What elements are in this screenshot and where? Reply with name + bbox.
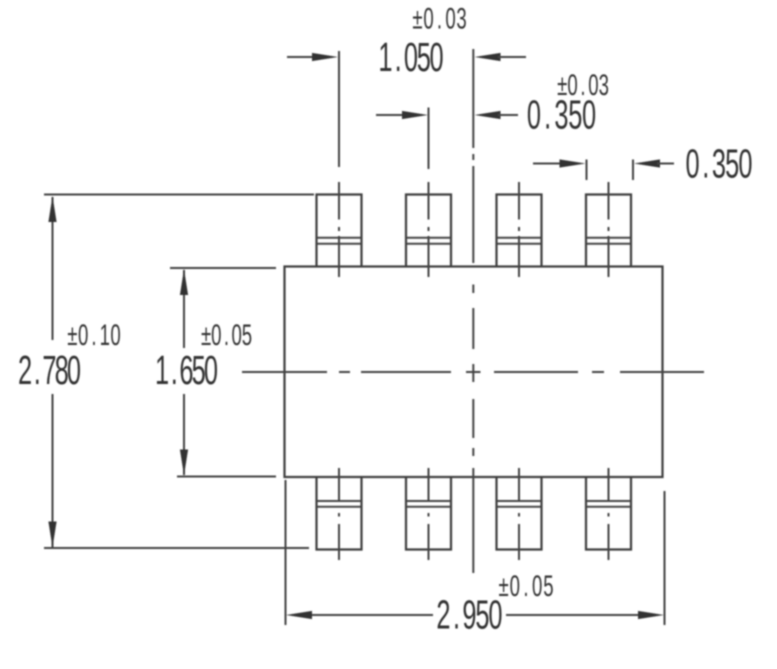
svg-text:.: . [34,348,41,394]
svg-text:5: 5 [417,35,431,81]
pin 8 bottom centerline [338,468,340,560]
svg-text:0: 0 [204,348,218,394]
pin 2 top shoulder lines [406,238,451,244]
svg-text:0: 0 [532,570,542,604]
svg-text:0: 0 [67,348,81,394]
pin 1 top outline [317,195,362,267]
pin 4 top shoulder lines [586,238,631,244]
dimension 1.050: right arrow [475,53,527,61]
dimension 1.050: extension line over pin 1 [338,51,340,167]
svg-text:.: . [91,319,96,353]
svg-text:.: . [453,592,460,638]
svg-text:3: 3 [599,69,609,103]
svg-text:.: . [580,69,585,103]
dimension 0.350 center: extension line over pin 2 [428,108,430,170]
dimension 2.780: bottom extension line [44,547,309,549]
svg-text:5: 5 [475,592,489,638]
dimension 1.650: down arrow [180,450,188,476]
dimension 0.350 pin width: left arrow [533,159,586,167]
pin 3 top centerline [518,182,520,277]
svg-text:0: 0 [567,69,577,103]
svg-text:±: ± [412,2,422,36]
svg-text:0: 0 [738,141,752,187]
svg-text:.: . [395,35,402,81]
dimension 0.350 pin width: extension ticks [587,160,634,181]
pin 5 bottom outline [586,477,631,550]
dimension 1.650: value label [155,348,218,394]
svg-text:0: 0 [404,35,418,81]
svg-text:1: 1 [378,35,392,81]
horizontal package centerline [242,371,704,373]
dimension 0.350 center: left arrow [376,111,428,119]
pin 5 bottom centerline [608,468,610,560]
dimension 2.950: left arrow [286,611,312,619]
svg-text:0: 0 [488,592,502,638]
dimension 1.650: tolerance label [201,319,252,353]
svg-text:0: 0 [232,319,242,353]
pin 8 bottom outline [317,477,362,550]
svg-text:.: . [437,2,442,36]
dimension 2.950: right extension line [664,491,666,625]
dimension 1.050: tolerance label [412,2,466,36]
dimension 1.050: value label [378,35,443,81]
svg-text:.: . [224,319,229,353]
svg-text:3: 3 [456,2,466,36]
svg-text:0: 0 [588,69,598,103]
dimension 2.780: value label [18,348,81,394]
svg-text:2: 2 [18,348,32,394]
pin 2 top outline [406,195,451,267]
svg-text:5: 5 [543,570,553,604]
svg-text:5: 5 [242,319,252,353]
dimension 2.780: up arrow [48,196,56,222]
dimension 2.780: top extension line [44,194,314,196]
svg-text:±: ± [557,69,567,103]
svg-text:0: 0 [510,570,520,604]
svg-text:0: 0 [430,35,444,81]
vertical package centerline [472,49,474,573]
package body [285,267,663,478]
svg-text:1: 1 [155,348,169,394]
pin 7 bottom centerline [428,468,430,560]
svg-text:.: . [171,348,178,394]
dimension 1.650: dimension line [183,270,185,475]
svg-text:3: 3 [712,141,726,187]
dimension 2.950: dimension line [310,614,640,616]
pin 7 bottom outline [406,477,451,550]
dimension 1.050: left arrow [287,53,338,61]
dimension 0.350 pin width: value label [686,141,753,187]
dimension 2.950: value label [436,592,502,638]
svg-text:.: . [544,92,551,138]
pin 6 bottom centerline [518,468,520,560]
svg-text:0: 0 [423,2,433,36]
pin 4 top outline [586,195,631,267]
svg-text:5: 5 [725,141,739,187]
dimension 1.650: up arrow [180,269,188,295]
svg-text:.: . [523,570,528,604]
pin 7 bottom shoulder lines [406,501,451,507]
pin 1 top centerline [338,182,340,277]
pin 1 top shoulder lines [317,238,362,244]
pin 3 top shoulder lines [497,238,542,244]
pin 8 bottom shoulder lines [317,501,362,507]
dimension 2.780: dimension line [52,197,54,547]
dimension 2.950: tolerance label [499,570,554,604]
pin 6 bottom outline [497,477,542,550]
svg-text:0: 0 [527,92,541,138]
svg-text:0: 0 [445,2,455,36]
pin 6 bottom shoulder lines [497,501,542,507]
svg-text:1: 1 [100,319,110,353]
dimension 2.950: right arrow [638,611,664,619]
pin 5 bottom shoulder lines [586,501,631,507]
pin 3 top outline [497,195,542,267]
dimension 0.350 pin width: right arrow [634,159,674,167]
svg-text:9: 9 [462,592,476,638]
dimension 1.650: bottom extension line [177,476,276,478]
pin 2 top centerline [428,182,430,277]
pin 4 top centerline [608,182,610,277]
svg-text:2: 2 [436,592,450,638]
dimension 2.950: left extension line [285,480,287,625]
dimension 2.780: down arrow [48,522,56,548]
dimension 0.350 center: tolerance label [557,69,609,103]
dimension 0.350 center: right arrow [475,111,519,119]
svg-text:0: 0 [686,141,700,187]
dimension 1.650: top extension line [170,267,276,269]
svg-text:.: . [702,141,709,187]
svg-text:0: 0 [110,319,120,353]
dimension 0.350 center: value label [527,92,596,138]
dimension 2.780: tolerance label [67,319,120,353]
